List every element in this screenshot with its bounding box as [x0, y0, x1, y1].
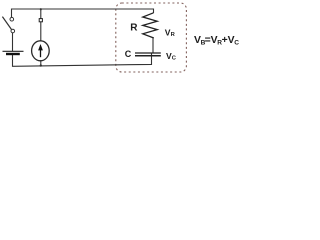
svg-text:C: C — [125, 49, 132, 59]
current source I1 — [32, 41, 50, 61]
equation VB=VR+VC — [194, 35, 239, 46]
svg-text:R: R — [171, 32, 176, 38]
node junction bottom — [40, 64, 42, 66]
svg-text:R: R — [130, 23, 138, 34]
node junction top — [40, 8, 42, 10]
wire middle branch top — [40, 9, 42, 19]
wire bottom — [13, 55, 152, 66]
label VC — [166, 51, 177, 62]
svg-text:C: C — [172, 56, 177, 62]
resistor R — [143, 13, 157, 38]
wire resistor to capacitor — [152, 38, 154, 56]
wire switch to battery — [12, 33, 14, 51]
wire current source to bottom — [40, 60, 42, 66]
svg-text:C: C — [234, 40, 239, 47]
battery B1 — [3, 51, 24, 54]
wire top — [12, 9, 154, 17]
dashed region box — [116, 3, 187, 72]
terminal square — [39, 19, 42, 22]
capacitor C — [135, 53, 161, 56]
switch S1 — [2, 17, 14, 33]
wire square to current source — [40, 22, 42, 42]
label VR — [165, 27, 176, 38]
